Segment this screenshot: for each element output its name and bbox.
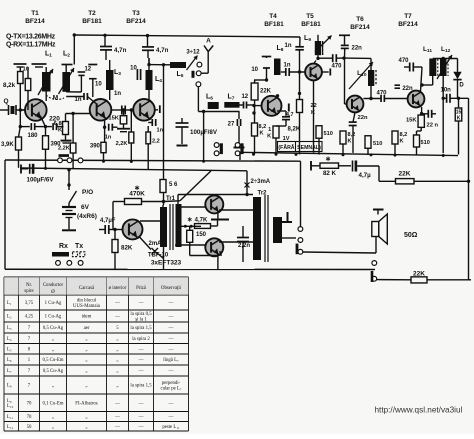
svg-text:TBF-10: TBF-10 [148, 253, 169, 259]
svg-text:2,2K: 2,2K [116, 141, 128, 147]
svg-text:„: „ [116, 384, 118, 389]
svg-text:K: K [267, 134, 271, 140]
svg-text:K: K [400, 139, 404, 145]
svg-text:510: 510 [373, 141, 382, 147]
svg-text:1 Cu-Ag: 1 Cu-Ag [45, 301, 62, 306]
svg-text:Observaţii: Observaţii [161, 286, 182, 291]
svg-text:L₂: L₂ [7, 315, 12, 320]
svg-text:22K: 22K [413, 270, 425, 277]
svg-text:4,7µ: 4,7µ [359, 172, 372, 179]
svg-text:8,2k: 8,2k [3, 82, 16, 89]
svg-text:BF181: BF181 [264, 21, 284, 28]
svg-text:„: „ [52, 347, 54, 352]
svg-text:—: — [114, 315, 120, 320]
svg-text:4,7n: 4,7n [114, 47, 127, 54]
svg-text:—: — [138, 415, 144, 420]
svg-text:2÷3mA: 2÷3mA [251, 179, 271, 185]
svg-text:„: „ [52, 425, 54, 430]
svg-text:—: — [168, 326, 174, 331]
svg-text:http://www.qsl.net/va3iul: http://www.qsl.net/va3iul [375, 406, 463, 415]
svg-text:10: 10 [95, 82, 102, 88]
svg-text:BF214: BF214 [350, 24, 370, 31]
svg-text:UUS-Mamaia: UUS-Mamaia [73, 304, 101, 309]
svg-text:„: „ [116, 347, 118, 352]
svg-text:4,7K: 4,7K [195, 218, 208, 224]
svg-text:—: — [168, 415, 174, 420]
svg-text:3,9K: 3,9K [1, 142, 14, 148]
svg-text:—: — [168, 401, 174, 406]
svg-text:L₅: L₅ [7, 347, 12, 352]
svg-text:1: 1 [268, 127, 271, 133]
svg-text:470: 470 [398, 58, 409, 64]
svg-text:22 n: 22 n [427, 123, 439, 129]
svg-text:„: „ [52, 384, 54, 389]
svg-text:D: D [459, 83, 464, 89]
svg-text:—: — [138, 369, 144, 374]
svg-text:T3: T3 [132, 10, 140, 17]
svg-text:10: 10 [130, 66, 137, 72]
svg-text:la spira 2: la spira 2 [132, 337, 150, 342]
svg-text:2,2K: 2,2K [58, 146, 70, 152]
svg-text:150: 150 [196, 232, 207, 238]
svg-text:L₁: L₁ [7, 301, 12, 306]
svg-text:L₁₁: L₁₁ [7, 415, 14, 420]
svg-text:Ø: Ø [51, 290, 55, 295]
svg-text:Tr2: Tr2 [257, 191, 267, 197]
svg-text:„: „ [116, 369, 118, 374]
svg-text:peste L₁₁: peste L₁₁ [162, 425, 180, 430]
svg-text:510: 510 [421, 140, 430, 146]
svg-text:15K: 15K [406, 118, 417, 124]
svg-text:K: K [457, 116, 461, 122]
svg-text:Conductor: Conductor [43, 283, 64, 288]
svg-text:—: — [168, 369, 174, 374]
svg-text:„: „ [85, 369, 87, 374]
svg-text:—: — [114, 401, 120, 406]
svg-text:(FĂRĂ: (FĂRĂ [278, 144, 294, 151]
svg-text:„: „ [85, 384, 87, 389]
svg-text:idem: idem [82, 315, 92, 320]
svg-text:∗: ∗ [325, 155, 331, 163]
svg-text:12: 12 [84, 67, 91, 73]
svg-text:10: 10 [251, 67, 258, 73]
svg-text:100µF/6V: 100µF/6V [27, 177, 55, 184]
svg-text:„: „ [116, 358, 118, 363]
svg-text:15K: 15K [108, 116, 119, 122]
svg-text:100µF/8V: 100µF/8V [190, 129, 218, 136]
svg-text:12: 12 [241, 94, 248, 100]
svg-text:22K: 22K [399, 170, 411, 177]
svg-text:la spira 0,5: la spira 0,5 [130, 312, 152, 317]
svg-text:—: — [168, 315, 174, 320]
svg-text:50Ω: 50Ω [404, 232, 418, 239]
svg-text:82 K: 82 K [323, 170, 337, 177]
svg-text:—: — [138, 401, 144, 406]
svg-text:3÷12: 3÷12 [186, 50, 200, 56]
svg-text:5 6: 5 6 [169, 182, 178, 188]
svg-text:T4: T4 [269, 13, 277, 20]
svg-text:2,2n: 2,2n [238, 243, 250, 249]
svg-text:6V: 6V [81, 204, 90, 211]
svg-text:—: — [168, 337, 174, 342]
svg-text:510: 510 [324, 131, 333, 137]
svg-text:„: „ [52, 415, 54, 420]
svg-text:—: — [114, 425, 120, 430]
svg-text:din blocul: din blocul [77, 299, 97, 304]
svg-text:BF214: BF214 [126, 18, 146, 25]
svg-text:Q-RX=11.17MHz: Q-RX=11.17MHz [6, 42, 56, 49]
svg-text:0,5 Cu-Ag: 0,5 Cu-Ag [43, 369, 64, 374]
svg-text:8,2: 8,2 [259, 124, 267, 130]
svg-text:BF214: BF214 [398, 21, 418, 28]
svg-text:spire: spire [24, 289, 33, 294]
svg-text:(4xR6): (4xR6) [77, 213, 97, 220]
svg-text:1 Cu-Ag: 1 Cu-Ag [45, 315, 62, 320]
svg-text:L₈: L₈ [7, 384, 12, 389]
svg-text:„: „ [85, 425, 87, 430]
svg-text:0,1 Cu-Em: 0,1 Cu-Em [42, 401, 63, 406]
svg-text:„: „ [85, 337, 87, 342]
svg-text:3,75: 3,75 [25, 301, 34, 306]
svg-text:T7: T7 [404, 13, 412, 20]
svg-text:şi la 1: şi la 1 [135, 317, 147, 322]
svg-text:Priză: Priză [136, 286, 147, 291]
svg-text:„: „ [52, 337, 54, 342]
svg-text:180: 180 [27, 133, 38, 139]
svg-text:L₇: L₇ [7, 369, 12, 374]
svg-text:1n: 1n [74, 97, 81, 103]
svg-text:Tx: Tx [75, 243, 83, 250]
svg-text:L₆: L₆ [7, 358, 12, 363]
svg-text:1n: 1n [157, 128, 164, 134]
svg-text:T5: T5 [306, 13, 314, 20]
svg-text:Tr1: Tr1 [166, 196, 176, 202]
svg-text:SEMNAL): SEMNAL) [297, 145, 321, 151]
svg-text:6,8: 6,8 [54, 121, 63, 127]
svg-text:∗: ∗ [134, 184, 140, 192]
svg-text:8,2: 8,2 [348, 132, 356, 138]
svg-text:4,7n: 4,7n [156, 47, 169, 54]
svg-text:lîngă L₇: lîngă L₇ [163, 358, 179, 363]
svg-text:390: 390 [90, 144, 101, 150]
svg-text:A: A [206, 38, 211, 45]
svg-text:ø interior: ø interior [109, 286, 127, 291]
svg-text:1n: 1n [105, 135, 112, 141]
svg-text:T2: T2 [88, 10, 96, 17]
svg-text:82K: 82K [121, 245, 133, 252]
svg-text:cular pe L₇: cular pe L₇ [160, 386, 181, 391]
svg-text:—: — [168, 301, 174, 306]
svg-text:—: — [138, 358, 144, 363]
svg-text:la spira 1,5: la spira 1,5 [130, 384, 152, 389]
svg-text:„: „ [85, 358, 87, 363]
svg-text:1n: 1n [114, 91, 121, 97]
svg-text:1n: 1n [283, 63, 290, 69]
svg-text:K: K [348, 139, 352, 145]
svg-text:„: „ [116, 337, 118, 342]
svg-text:50: 50 [27, 425, 32, 430]
svg-text:∗: ∗ [187, 217, 193, 224]
svg-text:Carcasă: Carcasă [79, 286, 95, 291]
svg-text:perpendi-: perpendi- [162, 381, 181, 386]
svg-text:70: 70 [27, 401, 32, 406]
svg-text:0,5 Cu-Em: 0,5 Cu-Em [42, 358, 63, 363]
svg-text:P/O: P/O [82, 189, 93, 196]
svg-text:4,7µF: 4,7µF [100, 218, 116, 224]
svg-text:Nr.: Nr. [26, 283, 32, 288]
svg-text:Q-TX=13.26MHz: Q-TX=13.26MHz [6, 34, 56, 41]
svg-text:3xEFT323: 3xEFT323 [151, 260, 182, 267]
svg-text:—: — [138, 347, 144, 352]
svg-text:0,5 Cu-Ag: 0,5 Cu-Ag [43, 326, 64, 331]
svg-text:L₉: L₉ [7, 399, 12, 404]
svg-text:—: — [138, 301, 144, 306]
svg-text:aer: aer [84, 326, 90, 331]
svg-text:22n: 22n [358, 115, 368, 121]
svg-text:27: 27 [228, 122, 235, 128]
svg-text:1n: 1n [284, 43, 291, 49]
svg-text:Rx: Rx [59, 243, 68, 250]
svg-text:L₄: L₄ [7, 337, 12, 342]
svg-text:10n: 10n [441, 88, 452, 94]
svg-text:22K: 22K [260, 89, 272, 95]
svg-text:—: — [114, 301, 120, 306]
svg-text:4,25: 4,25 [25, 315, 34, 320]
svg-text:BF181: BF181 [82, 18, 102, 25]
svg-text:L₁₂: L₁₂ [7, 425, 14, 430]
svg-text:la spira 1,5: la spira 1,5 [130, 326, 152, 331]
svg-text:„: „ [85, 347, 87, 352]
svg-text:2,2: 2,2 [152, 139, 160, 145]
svg-text:FI-Albatros: FI-Albatros [75, 401, 98, 406]
svg-text:22n: 22n [352, 46, 363, 52]
svg-text:Q: Q [3, 98, 8, 105]
svg-text:470: 470 [331, 64, 342, 70]
svg-text:M: M [53, 95, 58, 102]
svg-text:„: „ [85, 415, 87, 420]
svg-text:L₃: L₃ [7, 326, 12, 331]
svg-text:BF181: BF181 [301, 21, 321, 28]
svg-text:70: 70 [27, 415, 32, 420]
svg-text:K: K [260, 131, 264, 137]
svg-text:L₁₀: L₁₀ [7, 404, 14, 409]
svg-text:BF214: BF214 [25, 18, 45, 25]
svg-text:—: — [114, 415, 120, 420]
svg-text:8,2: 8,2 [400, 132, 408, 138]
svg-text:—: — [168, 347, 174, 352]
svg-text:T6: T6 [356, 16, 364, 23]
svg-text:T1: T1 [31, 10, 39, 17]
svg-text:—: — [138, 425, 144, 430]
